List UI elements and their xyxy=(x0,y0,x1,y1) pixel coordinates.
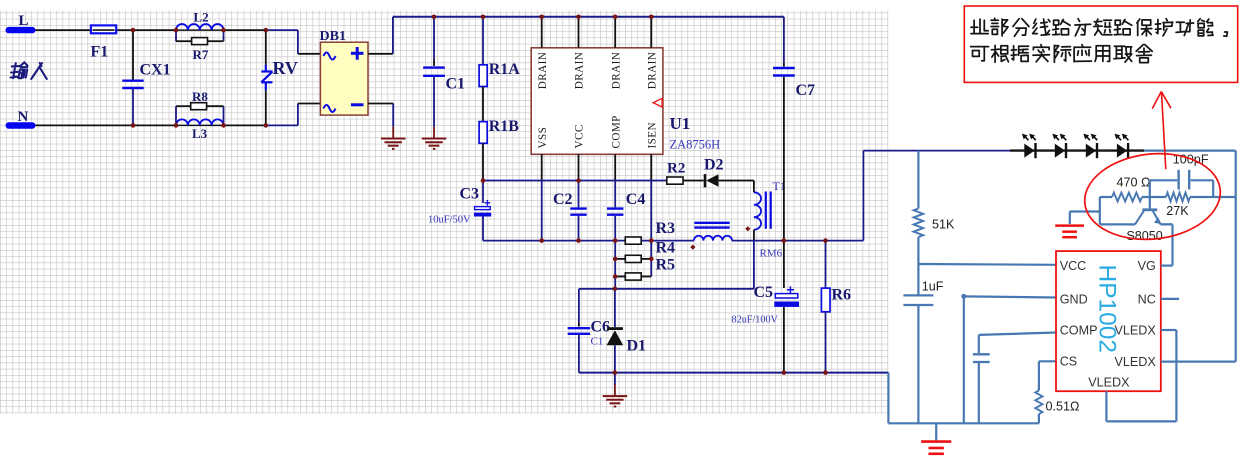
svg-text:COMP: COMP xyxy=(610,115,622,148)
svg-text:R1A: R1A xyxy=(489,61,521,78)
svg-text:S8050: S8050 xyxy=(1126,229,1162,243)
svg-text:L2: L2 xyxy=(194,10,209,25)
svg-text:VG: VG xyxy=(1138,259,1156,273)
svg-text:C4: C4 xyxy=(626,191,646,208)
svg-text:DRAIN: DRAIN xyxy=(574,52,586,89)
svg-text:C2: C2 xyxy=(553,191,573,208)
svg-text:DRAIN: DRAIN xyxy=(610,52,622,89)
svg-text:VSS: VSS xyxy=(537,127,549,149)
svg-text:L: L xyxy=(19,13,29,29)
svg-text:1uF: 1uF xyxy=(922,279,944,293)
svg-text:C1: C1 xyxy=(591,336,604,348)
svg-text:DRAIN: DRAIN xyxy=(647,52,659,89)
svg-text:R7: R7 xyxy=(193,47,209,62)
svg-text:ZA8756H: ZA8756H xyxy=(670,138,721,152)
svg-text:VCC: VCC xyxy=(574,124,586,148)
svg-text:HP1002: HP1002 xyxy=(1094,265,1121,354)
svg-text:DB1: DB1 xyxy=(320,29,346,44)
svg-text:D2: D2 xyxy=(704,157,724,174)
svg-text:R8: R8 xyxy=(192,89,208,104)
svg-text:L3: L3 xyxy=(192,126,208,141)
svg-text:CX1: CX1 xyxy=(140,62,171,79)
svg-text:NC: NC xyxy=(1138,292,1156,306)
svg-text:D1: D1 xyxy=(627,338,647,355)
svg-text:GND: GND xyxy=(1060,292,1088,306)
svg-text:51K: 51K xyxy=(932,218,955,232)
svg-text:R4: R4 xyxy=(656,239,676,256)
svg-text:0.51Ω: 0.51Ω xyxy=(1046,400,1080,414)
svg-text:VCC: VCC xyxy=(1060,259,1087,273)
svg-text:VLEDX: VLEDX xyxy=(1088,375,1130,389)
svg-text:R5: R5 xyxy=(656,257,676,274)
svg-text:C3: C3 xyxy=(460,186,480,203)
svg-text:R2: R2 xyxy=(667,161,685,177)
svg-text:R6: R6 xyxy=(832,287,852,304)
svg-text:10uF/50V: 10uF/50V xyxy=(428,214,471,225)
svg-text:VLEDX: VLEDX xyxy=(1114,355,1156,369)
svg-text:C1: C1 xyxy=(446,76,466,93)
svg-text:27K: 27K xyxy=(1166,204,1189,218)
svg-text:COMP: COMP xyxy=(1060,324,1098,338)
svg-text:C5: C5 xyxy=(754,284,774,301)
svg-text:82uF/100V: 82uF/100V xyxy=(732,315,779,326)
svg-text:R3: R3 xyxy=(656,220,676,237)
svg-text:F1: F1 xyxy=(91,44,109,61)
svg-text:C6: C6 xyxy=(591,319,611,336)
svg-text:ISEN: ISEN xyxy=(647,122,659,148)
svg-text:RM6: RM6 xyxy=(760,248,783,260)
svg-text:CS: CS xyxy=(1060,355,1078,369)
svg-text:DRAIN: DRAIN xyxy=(537,52,549,89)
svg-text:N: N xyxy=(18,109,29,125)
svg-text:470 Ω: 470 Ω xyxy=(1117,176,1151,190)
svg-text:C7: C7 xyxy=(796,82,816,99)
svg-text:R1B: R1B xyxy=(489,118,520,135)
svg-text:RV: RV xyxy=(273,58,298,78)
svg-text:U1: U1 xyxy=(670,114,691,133)
